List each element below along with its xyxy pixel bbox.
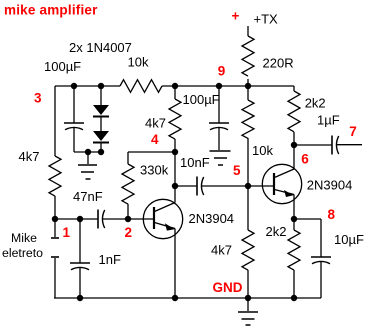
svg-text:2k2: 2k2 bbox=[305, 96, 326, 111]
wire 10uF bottom lead (321,261)-(321,298) bbox=[320, 262, 322, 299]
svg-text:10µF: 10µF bbox=[334, 232, 364, 247]
wire mid 4k7 bottom to node 4 (175,139)-(175,152) bbox=[174, 139, 176, 152]
resistor 4k7 (bottom, x=248) bbox=[242, 230, 254, 270]
svg-text:10k: 10k bbox=[252, 143, 273, 158]
svg-text:2x 1N4007: 2x 1N4007 bbox=[69, 40, 132, 55]
svg-text:Mike: Mike bbox=[11, 231, 37, 245]
node dot (80,298) bbox=[77, 295, 83, 301]
ground (under right 100uF) bbox=[210, 151, 231, 165]
capacitor 100uF (left) top lead (74,86)-(74,123) bbox=[73, 86, 75, 123]
node dot (248,86) bbox=[245, 83, 251, 89]
wire node 7 output (336,145)-(364,145) bbox=[337, 144, 363, 146]
wire 10k2 top lead (248,86)-(248,100) bbox=[247, 86, 249, 100]
resistor 10k (top, horizontal) bbox=[120, 80, 162, 93]
wire 330k top lead (128,152)-(128,164) bbox=[127, 152, 129, 164]
node dot 1 (55,219) bbox=[52, 216, 58, 222]
wire 10nF to node 5 and Q2 base (201.5,186)-(274,186) bbox=[202, 185, 275, 187]
svg-text:6: 6 bbox=[301, 152, 309, 167]
ground (left, under diodes) bbox=[78, 152, 97, 179]
resistor 2k2 (bottom, x=294) bbox=[288, 230, 300, 270]
svg-text:4k7: 4k7 bbox=[19, 149, 40, 164]
ground GND (main, under rail) bbox=[238, 298, 258, 325]
wire 1nF bottom lead (80,267)-(80,298) bbox=[79, 268, 81, 299]
node junction dots bbox=[52, 83, 297, 301]
svg-text:330k: 330k bbox=[140, 163, 169, 178]
capacitor 100uF (left) bottom lead (74,127)-(74,152) bbox=[73, 128, 75, 153]
node dot 2 (128,219) bbox=[125, 216, 131, 222]
svg-text:2: 2 bbox=[125, 225, 133, 240]
resistor 220R bbox=[242, 36, 254, 76]
wire 4k7 bottom to node 1 (55,196)-(55,219) bbox=[54, 196, 56, 219]
resistor 2k2 (upper, x=294) bbox=[288, 91, 300, 132]
svg-text:+TX: +TX bbox=[254, 11, 279, 26]
svg-text:10nF: 10nF bbox=[180, 155, 210, 170]
wire diode top lead (101,86)-(101,105) bbox=[100, 86, 102, 105]
node dot (80,219) bbox=[77, 216, 83, 222]
svg-text:2k2: 2k2 bbox=[266, 224, 287, 239]
capacitor 10nF (horizontal) bbox=[197, 177, 204, 196]
svg-text:GND: GND bbox=[213, 280, 243, 295]
node dot 4 (175,152) bbox=[172, 149, 178, 155]
wire node 8 branch to 10uF (294,219)-(321,219) bbox=[294, 218, 321, 220]
wire base rail node1-node2 to Q1 (55,219)-(98,219) bbox=[55, 218, 98, 220]
node dot (88,152) bbox=[85, 149, 91, 155]
wire between diodes (101,117)-(101,131) bbox=[100, 117, 102, 131]
resistor 4k7 (middle, x=175) bbox=[169, 99, 181, 139]
svg-text:100µF: 100µF bbox=[44, 59, 81, 74]
resistor 4k7 (left, x=55) bbox=[49, 156, 61, 196]
svg-text:eletreto: eletreto bbox=[2, 246, 43, 260]
wire 47nF to Q1 base (102.5,219)-(154,219) bbox=[103, 218, 155, 220]
wire diode bottom lead (101,143)-(101,152) bbox=[100, 143, 102, 152]
wire node 8 to 2k2 (294,219)-(294,230) bbox=[293, 219, 295, 230]
wire 220R bottom to node 9 (248,79)-(248,86) bbox=[247, 79, 249, 86]
transistor Q2 2N3904 bbox=[262, 164, 301, 203]
capacitor 10uF bbox=[311, 257, 331, 264]
wire node 5 to 4k7 (248,186)-(248,230) bbox=[247, 186, 249, 230]
svg-text:10k: 10k bbox=[128, 55, 149, 70]
node dot (248,298) bbox=[245, 295, 251, 301]
diode D2 1N4007 bbox=[93, 131, 109, 143]
svg-text:47nF: 47nF bbox=[73, 189, 103, 204]
wire node 4 to node collector rail (175,152)-(175,186) bbox=[174, 152, 176, 186]
svg-text:8: 8 bbox=[328, 207, 336, 222]
wire 2k2 top lead (294,86)-(294,91) bbox=[293, 86, 295, 91]
svg-text:2N3904: 2N3904 bbox=[307, 178, 353, 193]
node dot (219,86) bbox=[216, 83, 222, 89]
svg-text:9: 9 bbox=[218, 63, 226, 78]
resistor 330k bbox=[122, 164, 134, 204]
node dot (175,86) bbox=[172, 83, 178, 89]
node dot (175,298) bbox=[172, 295, 178, 301]
capacitor 100uF (right of node 9) top lead (219,86)-(219,123) bbox=[218, 86, 220, 123]
wire top supply rail node 9 (55,86)-(120,86) bbox=[55, 85, 120, 87]
node dot (101,152) bbox=[98, 149, 104, 155]
wire Q2 emitter to node 8 (294,195)-(294,219) bbox=[293, 195, 295, 220]
svg-text:100µF: 100µF bbox=[183, 92, 220, 107]
svg-text:+: + bbox=[232, 9, 240, 24]
wire Q1 emitter to ground rail (175,228)-(175,298) bbox=[174, 229, 176, 299]
wire node 6 to 1uF (294,145)-(332,145) bbox=[294, 144, 332, 146]
svg-text:2N3904: 2N3904 bbox=[189, 211, 235, 226]
svg-text:4: 4 bbox=[151, 132, 159, 147]
wire cap bottom to diode bottom (74,152)-(101,152) bbox=[74, 151, 101, 153]
capacitor 1uF (output, horizontal) bbox=[332, 136, 339, 155]
wire 10k bottom to node 5 (248,138)-(248,186) bbox=[247, 138, 249, 186]
node dot (101,86) bbox=[98, 83, 104, 89]
capacitor 100uF (left) plates bbox=[64, 123, 84, 130]
svg-text:3: 3 bbox=[34, 90, 42, 105]
capacitor 100uF (right) plates bbox=[209, 123, 229, 130]
wire node 4 horizontal (128,152)-(175,152) bbox=[128, 151, 175, 153]
transistor Q1 2N3904 bbox=[143, 199, 182, 238]
capacitor 1nF bbox=[70, 263, 90, 270]
node dot 6 (294,145) bbox=[291, 142, 297, 148]
capacitor 100uF (right) bottom lead (219,127)-(219,150) bbox=[218, 128, 220, 151]
wire 1nF top lead (80,219)-(80,263) bbox=[79, 219, 81, 263]
wire mid 4k7 top lead (175,86)-(175,99) bbox=[174, 86, 176, 99]
microphone electret MIC terminals bbox=[51, 219, 59, 298]
svg-text:220R: 220R bbox=[263, 56, 294, 71]
node dot 8 (294,219) bbox=[291, 216, 297, 222]
svg-text:mike amplifier: mike amplifier bbox=[4, 3, 98, 18]
svg-text:7: 7 bbox=[349, 124, 357, 139]
resistor 10k (vertical, x=248) bbox=[242, 100, 254, 138]
wire 2k2 bottom to node 6 (294,132)-(294,145) bbox=[293, 132, 295, 145]
node dot (294,298) bbox=[291, 295, 297, 301]
svg-text:5: 5 bbox=[233, 163, 241, 178]
node dot 5 (248,186) bbox=[245, 183, 251, 189]
svg-text:4k7: 4k7 bbox=[145, 116, 166, 131]
wire top rail right of 10k (162,86)-(294,86) bbox=[162, 85, 294, 87]
svg-text:4k7: 4k7 bbox=[211, 242, 232, 257]
wire 4k7 bottom to ground rail (248,270)-(248,298) bbox=[247, 270, 249, 298]
capacitor 47nF (horizontal) bbox=[98, 210, 105, 229]
node dot (74,86) bbox=[71, 83, 77, 89]
node dot (175,186) bbox=[172, 183, 178, 189]
diode D1 1N4007 bbox=[93, 105, 109, 117]
wire 10uF top lead (321,219)-(321,257) bbox=[320, 219, 322, 257]
wire bottom ground rail (54,298)-(321,298) bbox=[54, 297, 321, 299]
svg-text:1µF: 1µF bbox=[317, 113, 340, 128]
wire 330k bottom to node 2 (128,204)-(128,219) bbox=[127, 204, 129, 219]
wire Q2 collector (294,145)-(294,169) bbox=[293, 145, 295, 169]
wire 2k2 bottom to ground rail (294,270)-(294,298) bbox=[293, 270, 295, 298]
svg-text:1: 1 bbox=[63, 225, 71, 240]
wire node 4 rail to 10nF (175,186)-(197,186) bbox=[175, 185, 197, 187]
wire Q1 collector (175,186)-(175,202) bbox=[174, 186, 176, 203]
svg-text:1nF: 1nF bbox=[99, 252, 121, 267]
wire node 3 left branch vertical (55,86)-(55,156) bbox=[54, 86, 56, 156]
wire +TX lead (248,22)-(248,36) bbox=[247, 26, 249, 36]
